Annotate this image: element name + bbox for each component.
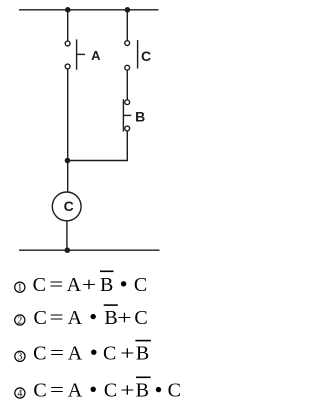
svg-text:+: + xyxy=(117,306,131,328)
switch C contact top xyxy=(125,41,130,46)
svg-text:+: + xyxy=(120,379,134,401)
node top-left junction xyxy=(65,7,71,13)
equation 3: C = A . C + Bbar xyxy=(33,341,151,365)
svg-text:C: C xyxy=(134,274,147,296)
switch B contact bottom xyxy=(125,126,130,131)
svg-text:C: C xyxy=(103,343,116,365)
svg-text:=: = xyxy=(49,273,63,295)
svg-text:=: = xyxy=(50,306,64,328)
svg-text:C: C xyxy=(141,48,151,64)
wire from switch C to switch B xyxy=(126,71,128,100)
svg-text:C: C xyxy=(34,307,47,329)
svg-text:=: = xyxy=(50,342,64,364)
svg-text:C: C xyxy=(64,198,74,214)
svg-text:3: 3 xyxy=(17,352,22,363)
node top-right junction xyxy=(125,7,131,13)
switch B actuator bar xyxy=(122,99,124,131)
svg-text:+: + xyxy=(82,274,96,296)
lamp C circle xyxy=(52,192,81,221)
switch B contact top xyxy=(125,100,130,105)
equation 1: C = A + Bbar . C xyxy=(33,271,148,296)
svg-text:+: + xyxy=(120,342,134,364)
wire from switch A to junction xyxy=(67,69,69,160)
svg-text:B: B xyxy=(104,307,117,329)
wire from switch B down and left to junction xyxy=(68,131,128,160)
option 1 marker circled 1 xyxy=(15,282,25,294)
svg-text:1: 1 xyxy=(17,283,22,294)
svg-text:C: C xyxy=(104,380,117,402)
wire from top bus to switch A xyxy=(67,10,69,41)
svg-text:A: A xyxy=(68,380,83,402)
switch A actuator tick xyxy=(77,53,85,55)
equation 2: C = A . Bbar + C xyxy=(34,305,148,329)
wire lamp to bottom bus xyxy=(66,221,68,250)
switch B actuator tick xyxy=(123,114,131,116)
switch C actuator bar xyxy=(137,40,139,68)
wire top bus xyxy=(19,9,159,11)
svg-text:C: C xyxy=(33,343,46,365)
svg-text:B: B xyxy=(135,109,145,125)
switch A contact top xyxy=(65,41,70,46)
svg-text:A: A xyxy=(68,343,83,365)
svg-text:A: A xyxy=(91,48,101,63)
wire bottom bus xyxy=(19,249,160,251)
svg-text:=: = xyxy=(50,379,64,401)
wire from top bus to switch C xyxy=(126,10,128,41)
svg-text:A: A xyxy=(68,307,83,329)
svg-text:C: C xyxy=(168,380,181,402)
wire junction to lamp xyxy=(67,161,69,193)
equation 4: C = A . C + Bbar . C xyxy=(33,377,181,401)
node bottom junction xyxy=(65,247,71,253)
option 3 marker circled 3 xyxy=(15,351,25,363)
svg-text:B: B xyxy=(136,343,149,365)
svg-text:2: 2 xyxy=(17,315,22,326)
svg-text:A: A xyxy=(67,274,82,296)
switch A actuator bar xyxy=(76,39,78,69)
option 4 marker circled 4 xyxy=(15,388,25,400)
node branch junction xyxy=(65,158,71,164)
switch A contact bottom xyxy=(65,64,70,69)
svg-text:B: B xyxy=(100,274,113,296)
svg-text:C: C xyxy=(33,380,46,402)
svg-text:B: B xyxy=(136,380,149,402)
svg-text:C: C xyxy=(33,274,46,296)
svg-text:4: 4 xyxy=(17,388,22,399)
svg-text:C: C xyxy=(134,307,147,329)
switch C contact bottom xyxy=(125,65,130,70)
option 2 marker circled 2 xyxy=(15,315,25,327)
